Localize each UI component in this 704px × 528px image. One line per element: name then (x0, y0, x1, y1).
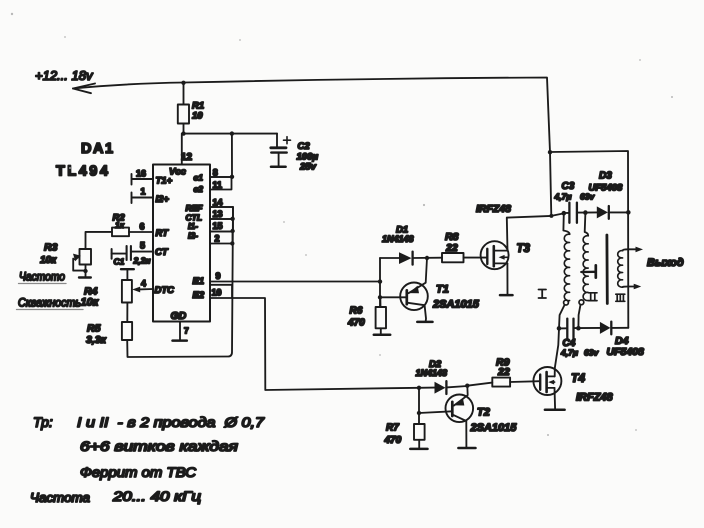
svg-text:REF: REF (186, 203, 204, 213)
svg-text:1к: 1к (115, 220, 125, 230)
svg-text:DA1: DA1 (81, 141, 115, 157)
svg-text:14: 14 (213, 198, 223, 208)
svg-text:470: 470 (347, 318, 365, 329)
node C3 right (583, 210, 588, 215)
svg-text:R3: R3 (44, 242, 58, 254)
svg-text:R5: R5 (87, 323, 101, 335)
svg-text:Выход: Выход (647, 257, 684, 269)
diode D1 (380, 257, 399, 259)
ground R7 (410, 448, 427, 451)
pin 15 I1- box (210, 219, 233, 232)
svg-text:25v: 25v (299, 162, 317, 173)
svg-text:13: 13 (213, 209, 223, 219)
svg-text:10к: 10к (81, 297, 100, 309)
node C4 left (557, 326, 562, 331)
svg-text:UF5408: UF5408 (589, 183, 624, 194)
svg-text:T3: T3 (517, 243, 531, 255)
svg-text:TL494: TL494 (56, 164, 110, 180)
ground R6 (374, 334, 390, 337)
wire Vcc node to C2 (184, 133, 278, 135)
diode D3 (585, 211, 596, 213)
wire supply drop to C3 node (550, 152, 564, 216)
wire winding II bottom to C4 (578, 305, 580, 329)
transistor T3 IRFZ48 mosfet (481, 241, 509, 269)
pin 1 I2+ stub (132, 193, 154, 204)
node C3 left (562, 211, 567, 216)
svg-text:T1+: T1+ (156, 176, 173, 187)
pin 12 Vcc stub (181, 134, 183, 165)
wire DTC arrow to R4 (139, 288, 153, 290)
terminal bar R3 bottom (79, 276, 91, 278)
svg-text:с1: с1 (194, 173, 204, 183)
label I (539, 290, 547, 299)
svg-text:Скважность: Скважность (18, 298, 81, 310)
transistor T1 2SA1015 (400, 283, 428, 311)
svg-text:R7: R7 (386, 423, 399, 434)
svg-text:R6: R6 (350, 306, 363, 317)
svg-text:15: 15 (213, 221, 223, 231)
svg-text:6: 6 (140, 222, 145, 232)
ground T2 (458, 447, 475, 450)
wire E2 pin10 to D2 node (210, 298, 419, 390)
node E2/D2 (417, 386, 421, 390)
node E1/D1 (379, 258, 381, 307)
capacitor C3 (564, 212, 569, 214)
wire power rail top (73, 78, 628, 328)
svg-text:D3: D3 (599, 171, 612, 182)
node Vcc left (181, 131, 185, 135)
wire winding I bottom to C4 (559, 305, 565, 328)
svg-text:UF5408: UF5408 (607, 346, 645, 358)
wire E1 pin9 to D1 node (210, 281, 380, 283)
pin 16 T1+ stub (132, 174, 154, 185)
svg-text:1N4148: 1N4148 (416, 368, 448, 378)
svg-text:I1-: I1- (188, 221, 198, 231)
wire T4 drain to C4 node (555, 328, 559, 376)
svg-text:10к: 10к (40, 255, 57, 266)
pin 2 I2- box (210, 232, 233, 244)
wire output bottom arrow (623, 286, 637, 289)
resistor R8 (442, 253, 464, 262)
diode D4 (578, 327, 600, 329)
svg-text:4: 4 (141, 279, 146, 289)
svg-text:2,2н: 2,2н (133, 256, 151, 266)
svg-text:20... 40 кГц: 20... 40 кГц (112, 489, 202, 504)
svg-text:E1: E1 (193, 276, 205, 287)
svg-text:I2-: I2- (188, 231, 198, 241)
svg-text:470: 470 (384, 435, 402, 446)
ground T4 (545, 408, 565, 411)
phase dot II (579, 300, 584, 305)
potentiometer R4 (121, 268, 134, 270)
node C4 right (576, 326, 581, 331)
power arrow head (73, 84, 95, 94)
svg-text:2SA1015: 2SA1015 (432, 299, 480, 311)
svg-text:5: 5 (140, 241, 145, 251)
svg-text:8: 8 (213, 168, 218, 178)
pin 7 ground (179, 322, 181, 341)
winding II center tap (581, 271, 596, 274)
transformer winding II (585, 213, 589, 236)
potentiometer R3 (80, 249, 92, 265)
svg-text:2: 2 (215, 234, 220, 244)
transformer winding I (563, 213, 569, 234)
pin 14 REF wire (210, 206, 233, 208)
svg-text:C1: C1 (114, 257, 125, 267)
svg-text:CT: CT (155, 247, 169, 258)
svg-text:10: 10 (212, 288, 222, 298)
svg-text:3,3к: 3,3к (86, 334, 107, 346)
ground T1 (417, 321, 432, 324)
transistor T2 2SA1015 (446, 395, 474, 423)
svg-text:+12... 18v: +12... 18v (35, 68, 94, 83)
svg-text:9: 9 (216, 271, 221, 281)
phase dot I (564, 300, 569, 305)
svg-text:I и II - в 2 провода Ø 0,7: I и II - в 2 провода Ø 0,7 (77, 414, 265, 430)
wire T3 source (506, 263, 508, 294)
transformer winding III (618, 251, 623, 288)
op-amp U1 TL494 IC body (153, 165, 210, 322)
resistor R5 (126, 303, 128, 323)
scan specks (11, 13, 673, 436)
pin 10 E2 box (210, 285, 232, 298)
wire T4 source (554, 388, 557, 409)
svg-text:C3: C3 (562, 181, 575, 192)
svg-text:16: 16 (136, 169, 146, 179)
svg-text:4,7μ: 4,7μ (560, 348, 579, 358)
wire output top arrow (623, 249, 639, 250)
resistor R6 (379, 297, 381, 307)
svg-text:Феррит от ТВС: Феррит от ТВС (80, 464, 197, 480)
svg-text:C2: C2 (298, 141, 311, 152)
svg-text:Тр:: Тр: (33, 414, 53, 430)
svg-text:12: 12 (181, 152, 193, 163)
svg-text:63v: 63v (584, 348, 599, 358)
pin 8 c1 wire (210, 176, 232, 178)
svg-text:1: 1 (141, 187, 146, 197)
capacitor C1 (111, 249, 113, 259)
svg-text:22: 22 (497, 366, 510, 378)
svg-text:10: 10 (192, 111, 203, 122)
node R1 top (181, 81, 185, 85)
resistor R7 (418, 388, 420, 424)
wire pins 14-13-15-2 to R5 bottom (127, 207, 233, 357)
svg-text:GD: GD (171, 310, 187, 322)
resistor R2 (112, 228, 129, 237)
svg-text:6+6 витков каждая: 6+6 витков каждая (80, 438, 239, 454)
pin 11 c2 box (210, 177, 232, 190)
diode D2 (419, 387, 435, 389)
capacitor C4 (559, 327, 567, 329)
svg-text:IRFZ48: IRFZ48 (576, 392, 614, 404)
svg-text:DTC: DTC (155, 285, 175, 296)
node D3 out (626, 210, 631, 215)
svg-text:T4: T4 (571, 371, 585, 385)
svg-text:4,7μ: 4,7μ (554, 192, 573, 202)
node Vcc mid (230, 131, 234, 135)
svg-text:с2: с2 (194, 184, 204, 194)
resistor R1 (183, 83, 185, 134)
svg-text:IRFZ48: IRFZ48 (476, 203, 511, 215)
svg-text:I2+: I2+ (156, 194, 170, 205)
svg-text:Частота: Частота (30, 491, 90, 505)
label II (589, 293, 598, 301)
wire T3 drain to C3 node (507, 216, 552, 251)
ground T3 (500, 294, 513, 297)
svg-text:RT: RT (156, 228, 170, 239)
svg-text:22: 22 (445, 242, 458, 254)
label III (616, 294, 625, 301)
svg-text:7: 7 (184, 326, 189, 336)
wire Vcc to pin8 (231, 134, 233, 177)
svg-text:T1: T1 (436, 284, 449, 296)
svg-text:11: 11 (213, 180, 223, 190)
capacitor C2 (276, 134, 278, 147)
ground C2 (271, 166, 286, 169)
svg-text:E2: E2 (193, 290, 205, 301)
node supply corner (548, 150, 552, 154)
svg-text:1N4148: 1N4148 (382, 234, 414, 244)
svg-text:T2: T2 (477, 407, 490, 419)
transistor T4 IRFZ48 mosfet (533, 367, 561, 395)
pin 13 CTL box (210, 207, 233, 219)
svg-text:Частото: Частото (19, 272, 66, 284)
transformer core (606, 235, 609, 304)
resistor R9 (467, 383, 492, 386)
svg-text:2SA1015: 2SA1015 (470, 422, 518, 434)
